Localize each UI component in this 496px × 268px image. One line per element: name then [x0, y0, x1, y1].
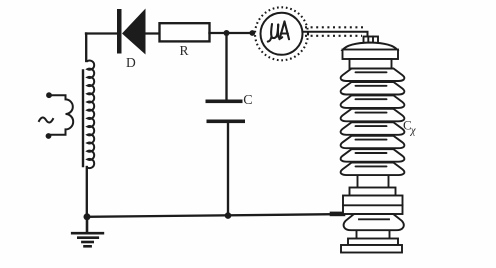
bushing shed 3 ridge line [356, 98, 387, 100]
ground symbol [72, 217, 103, 247]
bushing shed 1 ridge line [356, 71, 387, 73]
wire: bottom ground rail [87, 214, 333, 217]
bushing shed 5 ridge line [356, 125, 387, 127]
shield: lower dotted line to bushing [305, 35, 362, 37]
bushing cap sub-band [350, 59, 392, 69]
bushing flange body [343, 196, 403, 215]
bushing lower neck [357, 231, 390, 239]
meter uA body circle [261, 13, 303, 55]
bushing base step 2 [341, 245, 402, 253]
shield: dotted circle around meter [255, 7, 308, 60]
wire: meter output to bushing top terminal [303, 32, 368, 41]
bushing shed 5 [341, 122, 405, 135]
bushing shed 6 [341, 136, 405, 148]
AC source tilde symbol [39, 117, 53, 122]
bushing lower shed ridge line [359, 218, 389, 220]
bushing shed 3 [341, 95, 405, 108]
bushing base step 1 [348, 239, 398, 246]
capacitor C [206, 100, 246, 124]
bushing shed 4 [341, 109, 405, 122]
node: ground junction [84, 213, 91, 220]
bushing cap band [343, 50, 399, 60]
bushing shed 1 [341, 69, 405, 82]
bushing lower shed [344, 214, 404, 230]
svg-text:R: R [180, 43, 189, 58]
wire: secondary winding down to ground rail [86, 167, 88, 217]
node: wire dot at meter input (left of shield) [249, 30, 255, 36]
node: capacitor-rail junction [225, 212, 232, 219]
shield: upper dotted line to bushing [305, 26, 366, 28]
bushing shed 7 [341, 149, 405, 162]
label uA (handwritten) [268, 22, 289, 42]
bushing upper neck [358, 176, 389, 188]
label C [243, 93, 252, 108]
svg-text:D: D [126, 55, 136, 70]
bushing shed 6 ridge line [356, 139, 387, 141]
transformer core bar [82, 71, 84, 167]
bushing shed 2 ridge line [356, 85, 387, 87]
diode D [117, 9, 146, 55]
bushing shed 2 [341, 82, 405, 95]
wire: left vertical from top rail down to secondary winding [85, 34, 87, 62]
resistor R [160, 23, 210, 41]
transformer T primary winding with terminals [46, 92, 74, 139]
bushing shed 8 ridge line [356, 165, 387, 167]
wire: diode cathode to resistor [146, 32, 160, 34]
wire: capacitor bottom plate down to ground rail [227, 123, 229, 216]
bushing shed 8 [341, 163, 405, 176]
bushing shed 7 ridge line [356, 152, 387, 154]
label D [126, 55, 136, 70]
transformer T secondary winding coil [88, 60, 95, 168]
bushing shed 4 ridge line [356, 112, 387, 114]
node: junction of R, C and meter branch [224, 30, 230, 36]
label Cx (test object capacitance) [403, 118, 417, 137]
wire: resistor to microammeter [210, 32, 251, 34]
wire: top rail from transformer to diode anode [86, 32, 117, 34]
bushing flange divider line [343, 204, 403, 206]
bushing flange step [350, 188, 396, 196]
wire: rail end blob into bushing flange [332, 212, 343, 217]
svg-text:C: C [243, 93, 252, 108]
wire: junction down to capacitor top plate [225, 33, 227, 100]
bushing top dome [343, 43, 398, 51]
bushing top terminal [364, 37, 379, 44]
label R [180, 43, 189, 58]
